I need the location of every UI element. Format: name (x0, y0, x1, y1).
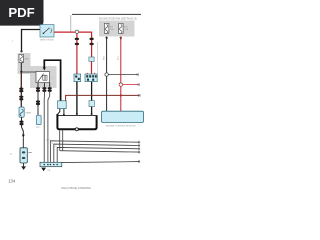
wire color labels (103, 55, 119, 60)
svg-text:B-O: B-O (118, 56, 120, 60)
svg-text:ENGINE CONTROL MODULE: ENGINE CONTROL MODULE (106, 125, 136, 127)
label: engine room R/B caption (99, 18, 137, 21)
wire: red main feed from ignition switch (54, 32, 92, 38)
node: junction under AM2 fuse (20, 63, 22, 73)
ground symbol (41, 168, 51, 172)
ignition switch (40, 25, 55, 42)
relay block gray (engine room J/B lower) (30, 66, 57, 88)
wire: branch to relay coil (21, 71, 43, 73)
relay pins + connectors (36, 83, 52, 92)
fuse block gray (engine room no.2 top right) (99, 21, 135, 37)
fuse 2 (IGN) (119, 23, 129, 33)
wire: gray stub from bus down to red feed (70, 15, 72, 32)
battery (10, 148, 32, 163)
wire: ground staircase line 2 (54, 144, 140, 162)
fuse AM2 (19, 54, 30, 63)
wire: top bus line (72, 13, 141, 15)
wire: relay pin3 to ground bar (48, 91, 50, 162)
node: splice on W-B (105, 73, 108, 76)
caption bottom center (62, 187, 91, 190)
wire: red drop from fuse 2 (120, 37, 122, 112)
igniter box (74, 73, 81, 82)
label: relay name (52, 78, 54, 80)
wire: black drop from connector box to engine loop (91, 82, 93, 101)
ignition coil boxlet (58, 101, 67, 109)
wire: maroon feed to coil (66, 94, 140, 101)
wire: W-B drop from fuse 1 (106, 37, 108, 112)
connector (goes off page) (36, 115, 41, 129)
wire: relay pin1 to connector (36, 91, 40, 115)
page number 134 (8, 178, 16, 183)
svg-text:AM2: AM2 (25, 57, 30, 60)
wire: relay pin2 to ground bar (43, 91, 45, 162)
wire: black drop from igniter to engine loop (76, 82, 78, 115)
svg-text:ENG (2TR-FE) CHARGING: ENG (2TR-FE) CHARGING (62, 187, 91, 190)
wire: ignition feed black (from switch left, down to AM2 fuse) (20, 30, 40, 53)
wire: red drop right (to connector box) (89, 37, 93, 57)
PDF badge (0, 0, 44, 26)
wire: coil pins into engine loop (58, 109, 65, 116)
wire: ground staircase line 1 (50, 141, 139, 163)
engine ground loop (57, 114, 96, 131)
svg-text:PDF: PDF (8, 5, 34, 20)
svg-text:ENGINE ROOM R/B (SEE PAGE 20): ENGINE ROOM R/B (SEE PAGE 20) (99, 18, 137, 21)
svg-text:W-B: W-B (103, 55, 105, 60)
wire: ground line 5 (62, 160, 140, 163)
node: splice on red (119, 83, 122, 86)
label: ground wire codes (46, 140, 61, 152)
ground: battery negative (21, 163, 26, 170)
connector box right (85, 73, 97, 82)
svg-text:MAIN: MAIN (26, 111, 32, 114)
alternator box (bottom right) (102, 111, 144, 127)
wire: branch right red (123, 83, 140, 86)
label: connector code near ignition feed (12, 41, 14, 43)
fuse 1 (EFI) (104, 23, 114, 33)
wire: jog down to battery (22, 125, 25, 148)
fuse block gray (AM2 fuse area) (18, 53, 31, 74)
wire: branch right from W-B splice (108, 73, 138, 76)
svg-text:134: 134 (8, 178, 16, 183)
wire: ground staircase line 3 (57, 147, 140, 162)
wire: main fusible link feed (dark brown) down left column (19, 72, 23, 107)
connector pair under fusible link (19, 117, 23, 125)
wire: ground line 4 from engine loop (60, 130, 140, 153)
relay (starter relay) (36, 72, 50, 83)
wire: faint shield line (96, 42, 98, 74)
condenser boxlet (89, 101, 94, 115)
wire: red drop left (to igniter) (75, 34, 79, 75)
fusible link MAIN (19, 107, 31, 117)
noise filter boxlet on red drop (89, 57, 94, 74)
ground bus bar (40, 162, 62, 166)
node: splice circle on red feed (75, 30, 78, 33)
fuse block pins (top right) (105, 37, 122, 40)
svg-text:IGNITION SW: IGNITION SW (40, 40, 55, 42)
wire: thick feed over relay (43, 60, 61, 100)
